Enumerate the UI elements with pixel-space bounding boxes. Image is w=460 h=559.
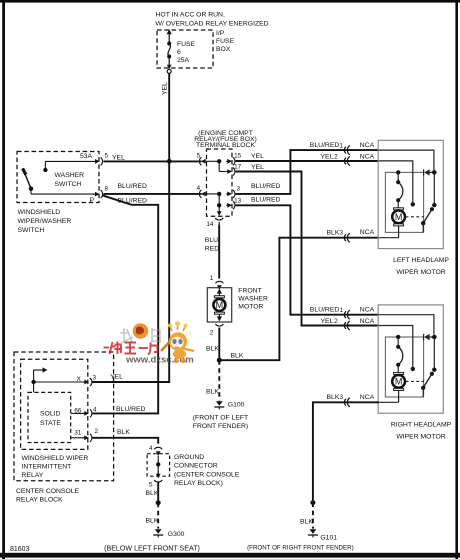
- svg-text:BLK: BLK: [206, 388, 219, 395]
- wire BLU/RED feed inside right headlamp motor: [379, 315, 434, 335]
- svg-text:14: 14: [206, 221, 214, 228]
- svg-text:BLK: BLK: [117, 429, 130, 436]
- svg-text:31: 31: [74, 430, 82, 437]
- park switch left headlamp motor: [406, 172, 437, 232]
- svg-text:FRONT FENDER): FRONT FENDER): [193, 423, 248, 430]
- svg-text:G300: G300: [168, 531, 185, 538]
- wire BLU/RED feed inside left headlamp motor: [379, 150, 434, 170]
- svg-text:NCA: NCA: [360, 142, 375, 149]
- svg-text:SOLID: SOLID: [40, 411, 60, 418]
- svg-text:FRONT: FRONT: [238, 287, 261, 294]
- svg-text:25A: 25A: [177, 57, 190, 64]
- svg-text:5: 5: [149, 482, 153, 489]
- svg-text:BLK: BLK: [206, 345, 219, 352]
- svg-text:(FRONT OF RIGHT FRONT FENDER): (FRONT OF RIGHT FRONT FENDER): [247, 545, 354, 552]
- svg-text:YEL: YEL: [162, 82, 169, 95]
- svg-text:YEL: YEL: [112, 155, 125, 162]
- svg-text:TERMINAL BLOCK: TERMINAL BLOCK: [196, 142, 256, 149]
- svg-text:YEL: YEL: [251, 153, 264, 160]
- svg-text:4: 4: [149, 445, 153, 452]
- svg-text:M: M: [395, 212, 403, 222]
- run contact right headlamp motor: [396, 335, 403, 373]
- engine compt relay/fuse box terminal block (dashed box): [194, 130, 257, 216]
- svg-text:CENTER CONSOLE: CENTER CONSOLE: [16, 488, 80, 495]
- inline connector BLK left motor pin 3: [344, 233, 349, 242]
- svg-text:6: 6: [177, 49, 181, 56]
- inline connector BLU/RED left motor pin 1: [344, 146, 349, 155]
- wire BLU/RED pin 13 to right headlamp wiper motor: [236, 197, 379, 315]
- svg-text:NCA: NCA: [360, 318, 375, 325]
- terminal block pin 15 exit connector: [226, 153, 241, 166]
- svg-text:YEL: YEL: [110, 373, 123, 380]
- svg-text:1: 1: [340, 142, 344, 149]
- svg-text:2: 2: [334, 154, 338, 161]
- wire YEL pin 15 to left headlamp wiper motor: [236, 153, 379, 161]
- svg-text:INTERMITTENT: INTERMITTENT: [22, 464, 72, 471]
- wire YEL relay pin 3 label: [110, 373, 123, 380]
- terminal block pin 13 exit connector: [226, 197, 241, 209]
- terminal block internal bus wires: [208, 159, 226, 216]
- solid state module (dashed box): [28, 392, 71, 442]
- ground G100: [193, 401, 248, 430]
- svg-text:I/P: I/P: [216, 30, 225, 37]
- wire BLK dashed to ground G300: [146, 503, 159, 529]
- svg-text:YEL: YEL: [251, 164, 264, 171]
- terminal block pin 5 entry connector: [197, 153, 208, 166]
- svg-text:BLU/: BLU/: [205, 237, 220, 244]
- relay pin 66/4 exit connector: [71, 407, 97, 418]
- wire BLU/RED switch pin 8 to terminal block pin 4: [104, 183, 202, 194]
- switch pin 8 exit connector: [94, 186, 109, 199]
- park switch right headlamp motor: [406, 337, 437, 397]
- svg-text:NCA: NCA: [360, 394, 375, 401]
- svg-text:3: 3: [236, 185, 240, 192]
- connector eyelet below fuse box: [167, 65, 172, 74]
- svg-text:GROUND: GROUND: [174, 454, 204, 461]
- svg-text:BLU/RED: BLU/RED: [251, 183, 281, 190]
- svg-text:RIGHT HEADLAMP: RIGHT HEADLAMP: [391, 421, 452, 428]
- svg-text:8: 8: [105, 186, 109, 193]
- svg-text:WIPER MOTOR: WIPER MOTOR: [396, 433, 445, 440]
- right headlamp wiper motor M3 (outer case): [378, 305, 451, 441]
- ground connector pin 5 exit: [149, 471, 162, 488]
- wire YEL feed inside left headlamp motor: [379, 161, 415, 207]
- svg-text:2: 2: [210, 330, 214, 337]
- front washer motor pin 2 exit connector: [210, 324, 224, 337]
- svg-text:3: 3: [339, 230, 343, 237]
- svg-text:W/ OVERLOAD RELAY ENERGIZED: W/ OVERLOAD RELAY ENERGIZED: [156, 21, 269, 28]
- fuse 6 25A: [167, 29, 196, 66]
- node YEL junction: [167, 159, 172, 164]
- motor M left headlamp: [392, 208, 405, 238]
- svg-text:RELAY BLOCK): RELAY BLOCK): [174, 480, 223, 487]
- svg-text:NCA: NCA: [360, 153, 375, 160]
- node HOT IN ACC OR RUN feed label: [156, 12, 269, 28]
- wire YEL junction down to intermittent relay pin 3: [92, 161, 169, 382]
- svg-text:81603: 81603: [10, 546, 30, 553]
- svg-text:NCA: NCA: [360, 229, 375, 236]
- wire BLK inside left headlamp motor: [379, 237, 399, 239]
- inline connector YEL right motor pin 2: [344, 321, 349, 330]
- left headlamp wiper motor M2 (outer case): [378, 140, 449, 275]
- svg-text:NCA: NCA: [360, 307, 375, 314]
- svg-text:BLU/RED: BLU/RED: [118, 198, 148, 205]
- svg-text:MOTOR: MOTOR: [238, 303, 263, 310]
- svg-text:(CENTER CONSOLE: (CENTER CONSOLE: [174, 471, 240, 478]
- svg-text:5: 5: [197, 153, 201, 160]
- wire BLU/RED pin 3 to left headlamp wiper motor: [236, 142, 379, 194]
- svg-text:5: 5: [105, 153, 109, 160]
- node BLK junction at washer motor: [217, 358, 222, 363]
- svg-text:4: 4: [197, 185, 201, 192]
- wire YEL feed inside right headlamp motor: [379, 326, 415, 372]
- wire BLK right headlamp motor pin 3 to ground: [313, 394, 379, 501]
- relay pin X/3 exit connector: [77, 375, 97, 387]
- svg-text:WINDSHIELD: WINDSHIELD: [18, 209, 61, 216]
- svg-text:WIPER MOTOR: WIPER MOTOR: [396, 269, 445, 276]
- I/P fuse box (dashed): [157, 30, 235, 68]
- diode inside right headlamp motor: [424, 334, 437, 340]
- motor M right headlamp: [392, 372, 405, 402]
- svg-text:(BELOW LEFT FRONT SEAT): (BELOW LEFT FRONT SEAT): [104, 545, 200, 553]
- wire BLK junction to left headlamp motor pin 3: [219, 229, 378, 360]
- ground connector (center console relay block): [147, 454, 240, 487]
- node BLK splice above G300: [156, 500, 161, 505]
- ground G101: [247, 529, 354, 551]
- wire BLU/RED switch pin 8 down to intermittent relay pin 4: [92, 195, 158, 413]
- wire BLK ground connector to splice: [146, 482, 159, 500]
- relay pin 31/2 exit connector: [71, 428, 99, 442]
- inline connector BLU/RED right motor pin 1: [344, 310, 349, 319]
- svg-text:2: 2: [334, 318, 338, 325]
- svg-text:BLK: BLK: [146, 518, 159, 525]
- watermark dzsc: [104, 321, 195, 365]
- node BLK splice above G101: [310, 500, 315, 505]
- center console relay block (outer dashed box): [14, 352, 114, 504]
- windshield wiper/washer switch S1 (dashed box): [17, 152, 99, 235]
- svg-text:BLU/RED: BLU/RED: [310, 307, 340, 314]
- svg-text:G100: G100: [228, 401, 245, 408]
- terminal block pin 14 exit connector: [206, 218, 223, 228]
- svg-text:RELAY: RELAY: [22, 472, 44, 479]
- terminal block pin 4 entry connector: [197, 185, 208, 198]
- svg-text:(FRONT OF LEFT: (FRONT OF LEFT: [193, 414, 248, 421]
- svg-text:53A: 53A: [80, 153, 93, 160]
- svg-text:FUSE: FUSE: [216, 38, 235, 45]
- svg-text:1: 1: [210, 275, 214, 282]
- left headlamp motor internal frame: [385, 172, 423, 232]
- svg-text:15: 15: [234, 153, 242, 160]
- ground G300: [104, 529, 200, 552]
- svg-text:BLK: BLK: [327, 229, 340, 236]
- svg-text:YEL: YEL: [321, 153, 334, 160]
- svg-text:3: 3: [92, 375, 96, 382]
- relay output arrow: [31, 367, 84, 392]
- svg-text:FUSE: FUSE: [177, 41, 196, 48]
- terminal block pin 17 exit connector: [226, 164, 241, 176]
- wire BLU/RED pin 14 down to front washer motor: [205, 225, 220, 279]
- svg-text:13: 13: [234, 197, 242, 204]
- wire BLU/RED relay pin 4 label: [116, 406, 146, 413]
- svg-text:17: 17: [234, 164, 242, 171]
- svg-text:YEL: YEL: [321, 318, 334, 325]
- svg-text:SWITCH: SWITCH: [18, 227, 45, 234]
- wire YEL switch to terminal block pin 5: [104, 155, 202, 162]
- svg-text:2: 2: [94, 428, 98, 435]
- diode inside left headlamp motor: [424, 169, 437, 175]
- svg-text:BLU/RED: BLU/RED: [251, 197, 281, 204]
- svg-text:RELAY BLOCK: RELAY BLOCK: [16, 497, 63, 504]
- right headlamp motor internal frame: [385, 337, 423, 397]
- svg-text:M: M: [216, 300, 224, 310]
- svg-text:RED: RED: [205, 245, 219, 252]
- ground connector pin 4 entry: [149, 445, 162, 456]
- svg-text:BLU/RED: BLU/RED: [116, 406, 146, 413]
- svg-text:LEFT HEADLAMP: LEFT HEADLAMP: [393, 257, 449, 264]
- wire BLK relay pin 2 to ground connector: [92, 429, 158, 444]
- svg-text:HOT IN ACC OR RUN,: HOT IN ACC OR RUN,: [156, 12, 225, 19]
- svg-text:BLK: BLK: [300, 518, 313, 525]
- svg-text:BLU/RED: BLU/RED: [310, 142, 340, 149]
- inline connector YEL left motor pin 2: [344, 156, 349, 165]
- svg-text:G101: G101: [320, 534, 337, 541]
- front washer motor M1: [207, 287, 268, 322]
- svg-text:STATE: STATE: [40, 420, 61, 427]
- svg-text:P: P: [90, 197, 95, 204]
- svg-text:BOX: BOX: [216, 46, 231, 53]
- svg-text:66: 66: [74, 408, 82, 415]
- svg-text:BLU/RED: BLU/RED: [118, 183, 148, 190]
- svg-text:BLK: BLK: [327, 394, 340, 401]
- wire BLK washer motor to junction: [206, 328, 219, 361]
- switch pin 5 exit connector: [94, 153, 109, 166]
- front washer motor M1 pin 1 entry connector: [210, 275, 224, 290]
- svg-text:WINDSHIELD WIPER: WINDSHIELD WIPER: [22, 455, 89, 462]
- wire BLK dashed to ground G101: [300, 503, 313, 529]
- svg-text:BLK: BLK: [231, 352, 244, 359]
- svg-text:4: 4: [93, 407, 97, 414]
- windshield wiper intermittent relay K1 (dashed box): [21, 359, 89, 479]
- terminal block pin 3 exit connector: [226, 185, 240, 198]
- wire BLK dashed to ground G100: [206, 360, 219, 400]
- svg-text:BLK: BLK: [146, 490, 159, 497]
- svg-text:1: 1: [340, 307, 344, 314]
- svg-text:WASHER: WASHER: [55, 172, 85, 179]
- svg-text:M: M: [395, 377, 403, 387]
- wire BLK inside right headlamp motor: [379, 401, 399, 403]
- run contact left headlamp motor: [396, 170, 403, 208]
- diagram number 81603: [10, 546, 30, 553]
- svg-text:WASHER: WASHER: [238, 295, 268, 302]
- svg-text:WIPER/WASHER: WIPER/WASHER: [18, 218, 72, 225]
- wire YEL pin 17 to right headlamp wiper motor: [236, 164, 379, 326]
- svg-text:3: 3: [339, 394, 343, 401]
- wire YEL fuse to junction: [162, 73, 170, 161]
- svg-text:CONNECTOR: CONNECTOR: [174, 463, 218, 470]
- inline connector BLK right motor pin 3: [344, 398, 349, 407]
- washer switch contact and blade: [23, 153, 99, 204]
- svg-text:SWITCH: SWITCH: [55, 181, 82, 188]
